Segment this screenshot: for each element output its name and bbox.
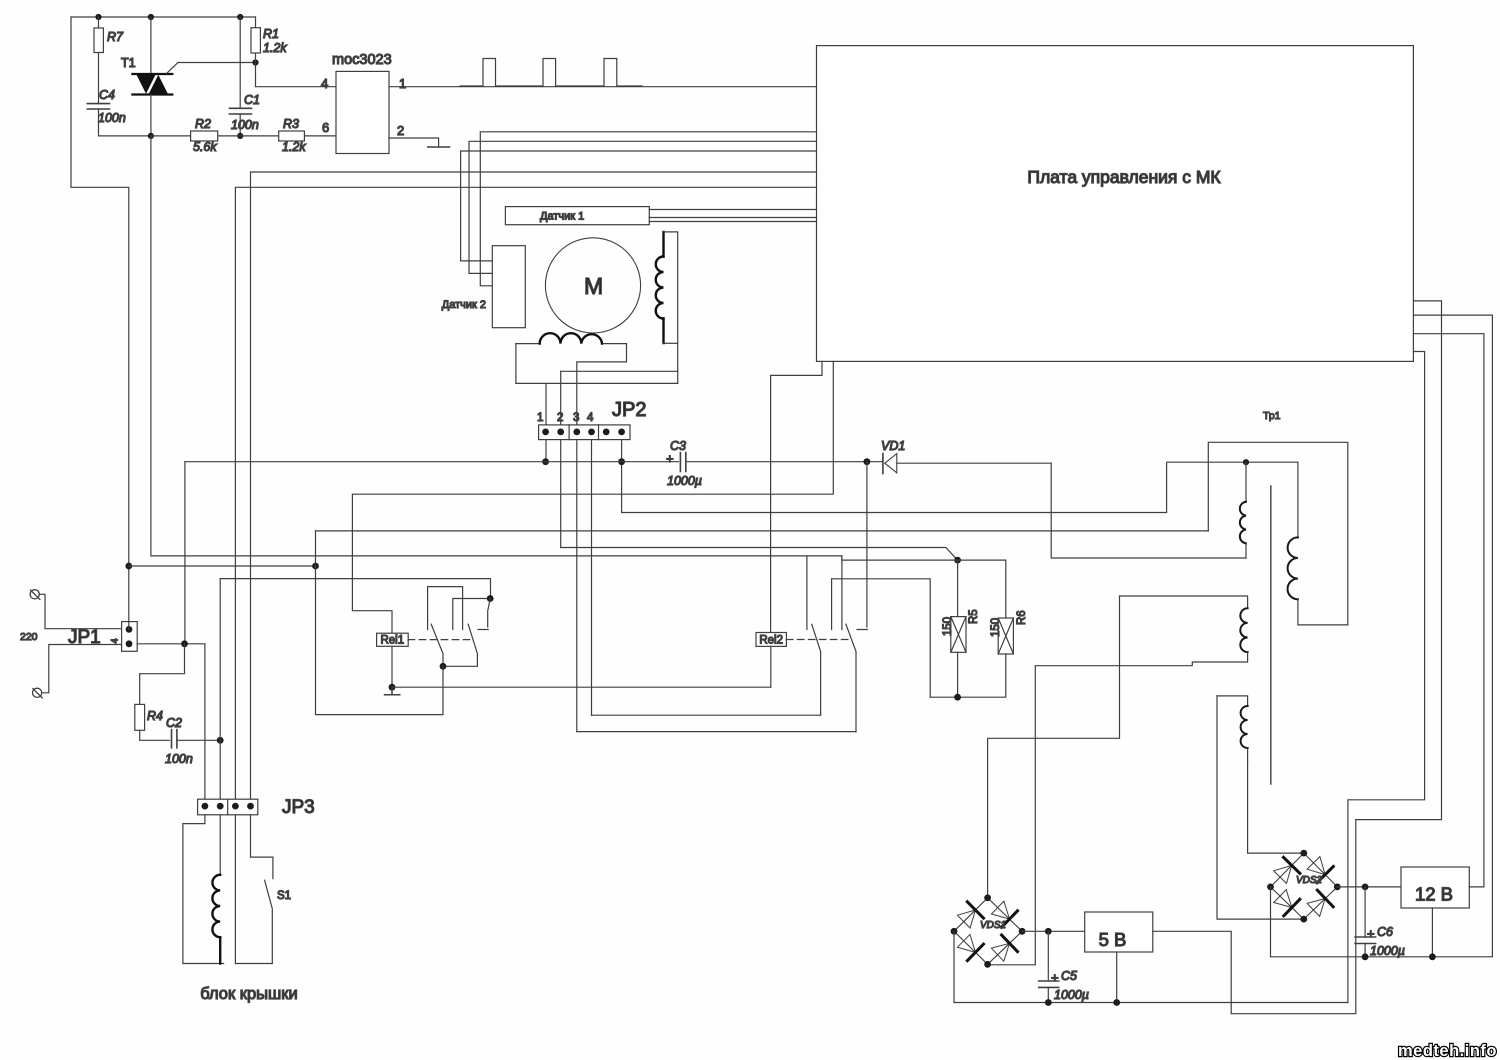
node: bottom rail / C1 [237,133,243,139]
wire: board to sensor2 line c [461,151,817,261]
resistor R1 1.2k [255,17,257,63]
svg-text:C2: C2 [166,716,182,730]
Rel2 contact2 terminal from mains jog [841,556,843,630]
wire control board to Rel2 coil [771,361,822,632]
wire VDS2 left node to ground rail 2 [1271,887,1493,957]
svg-text:VDS2: VDS2 [1296,875,1323,886]
node R5 bottom [954,694,961,701]
switch S1 [251,815,273,879]
wire: T1 gate to R1 node [167,63,256,74]
terminal 220 lower [33,688,42,697]
wire JP2 pin3 to Rel2 arm2 [577,731,856,733]
transformer secondary 1 (big) [1297,462,1299,537]
wire Rel1 common to lid rail [316,531,444,715]
node C6 bottom [1362,953,1369,960]
wire 12V output to board (W3) [1413,334,1484,887]
Rel1 NO stub right [478,599,490,630]
wire to JP2 pin2 [561,370,678,372]
pulse train symbol [460,59,642,87]
svg-text:1000µ: 1000µ [667,474,702,488]
node lid rail / Rel1 common riser [312,563,319,570]
wire Rel2 coil bottom [770,646,772,687]
svg-text:5.6k: 5.6k [193,140,217,154]
svg-text:1000µ: 1000µ [1054,988,1089,1002]
node bus / Rel2 NO drop [864,458,871,465]
Rel2 dashed actuator link [786,639,852,641]
wire JP2 pin2 down [560,440,562,548]
node JP1 lower / R4 branch [181,640,188,647]
node 5V gnd [1113,999,1120,1006]
wire control board to Rel1 coil [352,361,833,633]
wire to JP2 pin1 [516,383,678,425]
svg-text:1000µ: 1000µ [1370,944,1405,958]
resistor R5 150 (with X) [957,560,959,617]
wires sensor1 to board [649,210,816,222]
svg-text:JP1: JP1 [68,627,101,648]
motor M [545,238,640,333]
capacitor C1 100n [239,17,241,108]
svg-text:+: + [666,451,674,466]
svg-text:100n: 100n [165,752,193,766]
svg-text:Датчик 1: Датчик 1 [540,211,584,223]
connector JP3 [198,799,258,815]
svg-text:6: 6 [322,120,329,135]
wire 5V output to board (W1) [1153,301,1442,1014]
wire node to R4 [140,644,185,705]
wire Rel1 coil bottom [391,646,393,687]
wire lower terminal to JP1 [42,645,122,693]
wire from coil bottom [664,342,678,344]
svg-text:Rel1: Rel1 [380,635,404,647]
svg-text:1: 1 [399,76,406,91]
lid block solenoid coil [219,815,221,875]
wire: board to sensor2 line a [480,132,816,286]
Rel1 contact terminals loop [428,587,463,630]
wire winding left leg [515,344,517,384]
wire JP1 upper pin up [128,566,130,629]
wire 12V ground leg [1431,908,1433,957]
wire winding right leg to JP2 pin3 [577,344,627,425]
node: gate/R1 junction [252,59,258,65]
svg-text:100n: 100n [98,111,126,125]
node mains / JP1 riser [125,563,132,570]
svg-text:VD1: VD1 [881,439,905,453]
lid block right loop [235,815,272,964]
resistor R4 [135,704,145,730]
wire R4 to C2 [140,730,170,740]
wire JP2 pin3 down [576,440,578,732]
svg-text:4: 4 [110,638,120,643]
node Rel1 common [440,663,447,670]
svg-text:1.2k: 1.2k [282,140,306,154]
wire JP2 pin4 to Rel2 arm1 [592,714,821,716]
node pin1/bus [542,458,549,465]
svg-text:Плата управления с МК: Плата управления с МК [1027,167,1221,187]
svg-text:JP2: JP2 [612,399,646,421]
node C5 bottom [1045,999,1052,1006]
svg-text:T1: T1 [121,56,136,70]
motor winding (horizontal coil) [516,343,627,345]
node: top rail / R7 junction [95,14,101,20]
wire from coil top [664,232,678,384]
wire JP3 pin2 rail (C2 node up to relay feed, down to JP3) [219,579,221,800]
main bus wire [185,461,883,463]
control board box: Плата управления с МК [817,46,1414,362]
svg-text:VDS1: VDS1 [980,920,1006,931]
sensor box Датчик 1 [505,207,649,225]
connector JP2 [539,425,630,440]
wire T1 bottom rail drop and mains line [151,136,842,556]
wire VDS1 right node to 5V [1022,930,1085,932]
wire: mains left rail from top rail down, jog to JP1 [71,17,129,566]
svg-text:Rel2: Rel2 [759,634,783,646]
wire secondary1 return (long) [316,530,1209,532]
node: top rail / C1 junction [237,14,243,20]
svg-text:R7: R7 [107,30,124,44]
wire lid-interlock rail [129,565,316,567]
wire ground rail 2 to board (W2) [1413,315,1492,957]
wire JP2 pin4 down [591,440,593,716]
resistor R3 1.2k [279,131,305,141]
svg-text:medteh.info: medteh.info [1398,1042,1497,1060]
node transformer primary top [1243,459,1249,465]
relay coil Rel2 [756,633,786,647]
wire C2 to JP3 pin2 rail [177,739,220,741]
regulator 5 В [1085,912,1153,952]
wire JP2 pin2 run to Rel2 area [561,548,958,561]
node: top rail / T1 junction [148,14,154,20]
wire C4 to bottom rail [99,109,151,136]
wire: top rail [71,16,256,18]
svg-text:100n: 100n [231,118,259,132]
wire: board to JP3 pin3 rail [235,187,816,799]
Rel2 contact1 arm [812,624,821,715]
node R5/R6 feed [954,557,961,564]
wire R5/R6 bottoms join [930,652,1006,697]
wire JP2 pin2 vertical [560,371,562,425]
wire bottom rail [151,135,336,137]
svg-text:moc3023: moc3023 [332,52,392,68]
svg-text:5 В: 5 В [1099,929,1127,950]
svg-text:C5: C5 [1061,969,1077,983]
Rel1 contact arm 1 [431,624,443,666]
node pin6/bus [618,458,625,465]
regulator 12 В [1401,867,1469,908]
wire VD1 to transformer primary bottom [1051,463,1246,558]
node C2 / JP3 pin2 rail [217,737,224,744]
svg-text:JP3: JP3 [282,797,315,818]
Rel2 NO2 stub from bus [857,462,868,630]
wire moc3023 pin2 to ground [389,138,439,147]
svg-text:R4: R4 [147,709,163,723]
wire Rel1 ground to Rel2 coil bottom [392,686,771,688]
wire 5V ground leg [1116,952,1118,1003]
ground (Rel1) [385,687,400,695]
resistor R2 5.6k [191,131,218,141]
svg-text:R3: R3 [283,117,299,131]
Rel1 dashed actuator link [408,639,470,641]
svg-text:1.2k: 1.2k [263,41,287,55]
svg-text:2: 2 [557,412,563,424]
svg-text:M: M [584,273,603,299]
wire bus left end down to JP1 [184,462,186,644]
wire VDS1 left node to ground rail [954,931,1348,1002]
svg-text:1: 1 [537,412,543,424]
node 12V gnd [1429,953,1436,960]
svg-text:R6: R6 [1016,610,1028,625]
svg-text:S1: S1 [277,890,291,902]
wire JP2 pin1 to bus [545,440,547,462]
capacitor C6 1000µ [1364,887,1366,937]
transformer primary winding [1245,462,1247,502]
Rel2 NO1 stub from R5R6 return [831,579,833,630]
wire JP1 lower pin to R4 node [137,644,205,799]
svg-text:C4: C4 [99,88,115,102]
wire: board to JP3 pin4 rail [251,172,817,799]
transformer core [1270,486,1272,784]
ground (moc3023 pin2) [428,146,450,148]
svg-text:блок крышки: блок крышки [200,985,297,1003]
svg-text:R1: R1 [263,27,279,41]
svg-text:C1: C1 [244,93,260,107]
optocoupler moc3023 [336,71,389,153]
transformer secondary 2 [1120,596,1248,608]
wire JP2 pin6 to transformer primary top [622,462,1298,512]
svg-text:3: 3 [573,412,579,424]
wire: R1 node down to moc3023 pin4 [256,63,337,87]
lid block left loop [183,815,224,964]
sensor box Датчик 2 [492,246,525,328]
svg-text:12 В: 12 В [1415,884,1453,905]
node Rel1 ground [389,684,396,691]
node Rel1 contact feed [487,595,494,602]
Rel1 contact arm 2 [443,624,477,666]
relay coil Rel1 [377,633,409,646]
wire: board to sensor2 line b [469,141,817,273]
motor winding (vertical coil) [662,232,664,343]
bridge rectifier VDS2 [1271,853,1338,919]
wire C2-node rail to Rel1 contact feed [220,579,490,599]
svg-text:2: 2 [397,123,404,138]
bridge rectifier VDS1 [954,898,1022,965]
Rel2 contact2 arm [846,624,856,731]
svg-text:Тр1: Тр1 [1263,410,1281,422]
svg-text:+: + [1367,926,1375,941]
svg-text:4: 4 [321,76,328,91]
svg-text:+: + [1051,970,1059,985]
svg-text:R5: R5 [968,609,980,624]
wire mains jog to feed node [842,556,958,560]
svg-text:Датчик 2: Датчик 2 [442,299,486,311]
wire JP2 pin6 down [621,440,623,513]
Rel1 NO contact wire to node [453,599,490,630]
node: bottom rail / T1 [148,133,154,139]
terminal 220 upper [30,590,39,599]
svg-text:150: 150 [942,617,954,636]
wire ground rail to board (W4) [1348,352,1425,1003]
capacitor C5 1000µ [1047,931,1049,981]
wire VDS2 right node to 12V [1337,886,1401,888]
svg-text:R2: R2 [195,117,211,131]
transformer secondary 3 [1217,696,1248,706]
wire R7 to C4 [98,53,100,104]
wire upper terminal to JP1 [39,594,121,628]
svg-text:4: 4 [587,412,594,424]
svg-text:150: 150 [990,618,1002,637]
Rel2 contact1 terminal from mains [806,556,808,630]
node C5 top [1045,928,1052,935]
resistor R7 [98,17,100,28]
node C6 top [1362,884,1369,891]
resistor R6 150 (with X) [958,560,1006,618]
wire moc3023 pin1 to control board [389,86,817,88]
svg-text:C6: C6 [1377,925,1393,939]
svg-text:220: 220 [20,631,38,643]
wire R5R6 return to Rel2 NO1 [832,579,931,697]
